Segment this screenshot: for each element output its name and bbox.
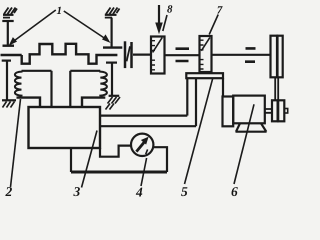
sensor L armature bar: [3, 45, 15, 47]
sensor L lower stem: [6, 61, 8, 100]
bracket 5 middle leg: [195, 78, 197, 126]
coil L bottom lead to block: [17, 98, 41, 107]
tray left wall: [70, 148, 72, 172]
label 4: [136, 188, 143, 197]
sensor R lower bar: [106, 61, 117, 63]
sensor R lower stem: [111, 63, 113, 96]
label 3: [73, 187, 80, 196]
sensor R top bar: [103, 46, 122, 48]
support lower-right (hatched): [106, 96, 121, 110]
label 5: [181, 187, 187, 196]
bracket 5 left leg: [186, 78, 188, 115]
bracket 5 top plate: [186, 73, 223, 78]
leader 4: [141, 158, 147, 186]
pulley column (friction drive): [271, 36, 283, 78]
label 7: [217, 6, 222, 13]
leader 5: [185, 79, 213, 184]
leader 6: [234, 104, 254, 184]
block 3 (amplifier unit): [29, 107, 101, 148]
sensor L lower bar: [2, 59, 11, 61]
label 1: [57, 7, 61, 14]
motor 6: [223, 96, 273, 132]
sensor L pole plate: [1, 54, 22, 57]
sensor R stem to upper support: [110, 18, 112, 48]
indicator gauge 4: [131, 134, 153, 156]
tray bottom: [71, 171, 167, 174]
connecting rod down: [275, 77, 278, 100]
coupling at motor: [272, 100, 288, 121]
shaft middle segment: [165, 54, 200, 56]
input arrow above disc 8: [156, 5, 162, 33]
leader 8: [163, 15, 167, 31]
shaft right segment: [212, 54, 271, 56]
sensor L stem (from support to armature): [7, 21, 9, 45]
coupling (sensor drive) bar 1: [124, 41, 127, 68]
toothed workpiece profile: [22, 44, 118, 64]
leader 7: [209, 15, 218, 35]
coil L winding (4 loops): [15, 71, 22, 97]
leader 3: [82, 131, 98, 188]
coil R bottom lead to block: [82, 98, 105, 107]
coil R winding (4 loops): [100, 71, 107, 97]
label 6: [232, 187, 238, 196]
coil R left lead down to block: [69, 71, 71, 107]
coil L right lead down to block: [50, 71, 52, 107]
leader 2: [11, 99, 21, 187]
coil assembly L : top bar: [22, 70, 52, 72]
label 8: [167, 5, 172, 12]
tray / base channel: [100, 146, 131, 157]
wire W2 block to bracket: [100, 125, 196, 127]
shaft break marks 2: [245, 48, 256, 61]
tray right ledge: [153, 147, 167, 172]
shaft left segment: [133, 53, 151, 55]
bracket 5 right leg: [222, 78, 224, 96]
disc 7: [200, 36, 212, 72]
disc 8: [151, 37, 165, 74]
support upper-right (hatched wall): [105, 8, 120, 18]
leader 1 right with arrowhead: [64, 11, 110, 42]
coupling slash: [127, 46, 130, 61]
coil assembly R : top bar: [70, 70, 100, 72]
support upper-left (hatched wall): [2, 8, 17, 22]
label 2: [5, 187, 12, 196]
coupling bar 2: [130, 42, 133, 68]
shaft break marks 1: [176, 49, 190, 61]
leader 1 left with arrowhead: [10, 10, 56, 45]
wire W1 block to bracket: [100, 114, 187, 116]
support lower-left (hatched): [2, 100, 16, 107]
